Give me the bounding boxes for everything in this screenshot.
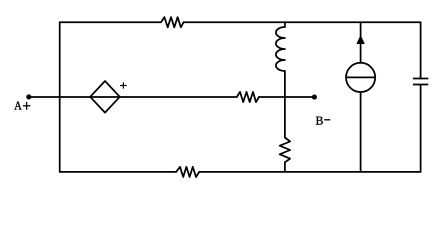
wire bottom-right segment: [199, 171, 420, 173]
wire bottom-left segment: [60, 171, 177, 173]
wire middle to node B: [259, 96, 314, 98]
arrow of current source: [357, 36, 364, 43]
resistor R4 (vertical): [280, 138, 290, 163]
plus sign of source: [120, 85, 127, 87]
wire top-left segment: [60, 21, 161, 23]
wire inductor branch bottom: [284, 162, 286, 172]
wire current source branch bottom: [360, 92, 362, 172]
current source I1 circle: [346, 63, 375, 92]
capacitor C1 top plate: [413, 78, 428, 80]
terminal node A dot: [26, 94, 31, 99]
resistor R3 (middle): [237, 92, 259, 102]
capacitor C1 bottom plate: [413, 84, 428, 86]
label B minus sign: [324, 119, 330, 121]
inductor L1: [276, 27, 285, 71]
label A: [14, 101, 21, 109]
wire inductor branch top: [284, 22, 286, 27]
wire left side: [59, 22, 61, 172]
wire right side upper: [420, 22, 422, 78]
resistor R1 (top): [161, 17, 184, 27]
wire current source branch top: [360, 22, 362, 63]
wire middle horizontal from node A: [29, 96, 237, 98]
label A plus sign: [23, 102, 30, 110]
current source diameter line: [346, 76, 376, 78]
wire inductor branch middle: [284, 71, 286, 138]
terminal node B dot: [312, 95, 317, 100]
label B: [316, 117, 323, 125]
resistor R2 (bottom): [176, 167, 199, 177]
dependent source U1 (diamond): [90, 81, 120, 113]
wire top-right segment: [184, 21, 421, 23]
wire right side lower: [420, 85, 422, 172]
